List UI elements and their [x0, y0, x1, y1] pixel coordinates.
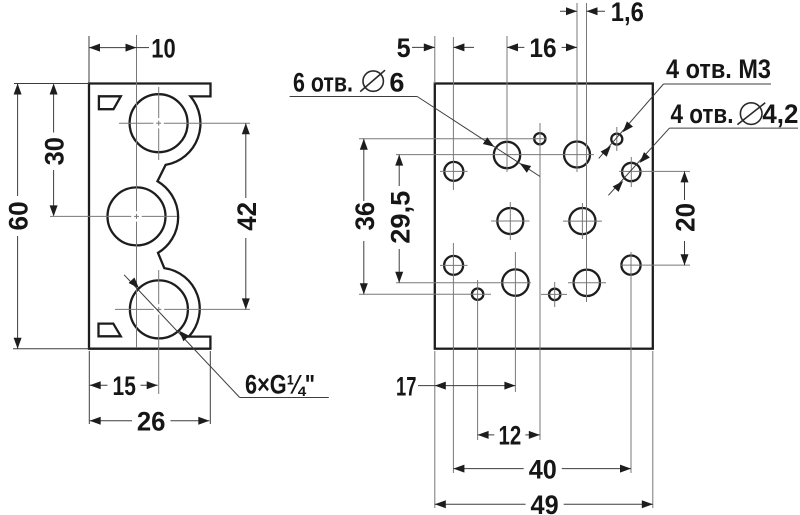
extension line left edge below: [88, 351, 90, 424]
label 4 otv. M3 underline: [664, 83, 772, 85]
row K: [396, 282, 531, 284]
row J: [359, 293, 491, 295]
crosshair A horizontal: [440, 170, 468, 172]
row F right: [619, 170, 690, 172]
col B: [506, 36, 508, 172]
ext left edge col below: [434, 351, 436, 508]
extension line right edge below: [209, 351, 211, 424]
col J: [477, 280, 479, 440]
svg-text:5: 5: [397, 33, 411, 63]
col D: [576, 3, 578, 172]
svg-text:26: 26: [137, 407, 166, 437]
dimension 26 arrows: [90, 417, 101, 425]
right view plate outline: [435, 84, 653, 349]
dimension 60 line: [17, 84, 19, 197]
svg-text:6: 6: [389, 67, 404, 97]
dimension 12 arrows: [478, 431, 489, 439]
dimension 17 arrows: [435, 382, 446, 390]
dimension 15 arrows: [90, 381, 101, 389]
label 6 otv. d6 arrows: [483, 137, 494, 146]
dimension 42 arrows: [242, 123, 250, 134]
label 6 otv. d6 leader: [417, 97, 540, 177]
svg-text:49: 49: [531, 490, 559, 515]
dimension 30 line: [53, 85, 55, 133]
col K: [514, 252, 516, 392]
svg-text:1,6: 1,6: [611, 0, 644, 27]
svg-text:16: 16: [529, 33, 556, 63]
svg-text:30: 30: [40, 137, 70, 165]
crosshair M horizontal: [568, 282, 606, 284]
label 4 otv. 4,2 diameter symbol: [740, 103, 762, 125]
dimension 49 line: [435, 503, 526, 505]
dimension 15 line: [90, 384, 108, 386]
dimension 16 arrows: [507, 43, 518, 51]
dimension 20 line: [684, 171, 686, 200]
label 4 otv. 4,2 underline: [670, 127, 799, 129]
dimension 42 line: [245, 123, 247, 198]
dimension 29,5 arrows: [395, 155, 403, 166]
svg-text:6×G¼": 6×G¼": [245, 370, 315, 400]
left view top-left notch: [99, 96, 121, 109]
crosshair E vertical: [616, 127, 618, 151]
row N right: [620, 264, 690, 266]
crosshair H horizontal: [563, 220, 602, 222]
svg-text:29,5: 29,5: [386, 191, 416, 244]
col A-I upper: [452, 37, 454, 190]
hole L M3: [549, 289, 560, 300]
dimension 49 arrows: [435, 500, 446, 508]
dimension 60 arrows: [14, 84, 22, 95]
hole I 4.2: [444, 256, 463, 275]
svg-text:36: 36: [350, 202, 380, 231]
svg-text:4 отв. М3: 4 отв. М3: [666, 54, 771, 84]
crosshair L horizontal: [541, 293, 567, 295]
ext left edge col above: [434, 36, 436, 84]
svg-text:60: 60: [4, 201, 34, 230]
left view bottom-left notch: [99, 324, 121, 337]
centerline horizontal top hole: [119, 122, 153, 124]
dimension 36 line: [363, 139, 365, 201]
dimension 20 arrows: [681, 171, 689, 182]
svg-text:20: 20: [671, 203, 701, 232]
centerline horizontal middle hole: [50, 215, 131, 217]
dimension 12 line: [478, 434, 495, 436]
leader 6xG1/4 diagonal: [124, 275, 240, 398]
crosshair F vertical: [630, 157, 632, 187]
crosshair I horizontal: [440, 264, 468, 266]
leader 6xG1/4 arrows: [129, 278, 139, 289]
svg-text:15: 15: [113, 371, 136, 401]
row B-D: [396, 154, 594, 156]
label 4 otv. 4,2 leader: [608, 128, 669, 195]
crosshair G vertical: [509, 202, 511, 240]
left view top hole G1/4: [130, 94, 188, 152]
hole B 6: [494, 142, 520, 168]
dimension 1,6 line: [560, 10, 577, 12]
hole H 6: [569, 208, 595, 234]
crosshair G horizontal: [491, 220, 530, 222]
label 6 otv. d6 diameter symbol: [363, 71, 383, 91]
dimension 40 arrows: [453, 465, 464, 473]
svg-text:10: 10: [151, 33, 175, 63]
hole C M3: [534, 133, 545, 144]
crosshair L vertical: [554, 282, 556, 307]
left view bottom hole G1/4: [130, 280, 188, 338]
dimension 5 arrows: [424, 43, 435, 51]
hole K 6: [502, 269, 528, 295]
hole M 6: [574, 270, 600, 296]
dimension 16 line: [507, 46, 524, 48]
col N: [630, 252, 632, 473]
dimension 10 arrows: [89, 44, 100, 52]
dimension 29,5 line: [398, 155, 400, 186]
left view plate outline: [89, 84, 211, 349]
extension line top edge left: [14, 83, 89, 85]
svg-text:6 отв.: 6 отв.: [293, 67, 353, 97]
centerline vertical middle column: [136, 35, 138, 211]
hole N 4.2: [621, 256, 640, 275]
ext right edge col below: [652, 351, 654, 508]
svg-text:40: 40: [529, 454, 557, 484]
col A-I lower: [452, 243, 454, 473]
centerline vertical top hole: [158, 87, 160, 118]
dimension 26 line: [90, 420, 132, 422]
left view middle hole G1/4: [108, 187, 166, 245]
label 4 otv. M3 arrows: [623, 121, 633, 132]
svg-text:4 отв.: 4 отв.: [671, 99, 734, 129]
hole D 6: [564, 142, 590, 168]
label 4 otv. M3 leader: [599, 84, 664, 158]
hole F 4.2: [622, 163, 640, 181]
hole G 6: [497, 208, 523, 234]
dimension 5 line: [412, 46, 435, 48]
hole E M3: [611, 134, 622, 145]
extension line left edge above: [88, 36, 90, 84]
hole A 4.2: [444, 162, 463, 181]
hole J M3: [472, 289, 483, 300]
svg-text:17: 17: [396, 371, 416, 401]
crosshair H vertical: [581, 203, 583, 239]
svg-text:42: 42: [232, 202, 262, 231]
col M: [586, 3, 588, 302]
extension line bottom edge left: [13, 348, 89, 350]
col C: [539, 123, 541, 440]
dimension 1,6 arrows: [566, 7, 577, 15]
dimension 30 arrows: [50, 84, 58, 95]
label 6 otv. d6 underline: [290, 96, 418, 98]
svg-text:12: 12: [499, 421, 522, 451]
row C: [359, 138, 547, 140]
dimension 10 line: [89, 47, 137, 49]
label 4 otv. 4,2 arrows: [640, 152, 650, 163]
dimension 40 line: [453, 468, 523, 470]
dimension 36 arrows: [360, 139, 368, 150]
centerline horizontal bottom hole: [115, 308, 154, 310]
svg-text:4,2: 4,2: [762, 99, 798, 129]
dimension 17 line: [418, 385, 515, 387]
centerline vertical bottom hole: [158, 270, 160, 304]
